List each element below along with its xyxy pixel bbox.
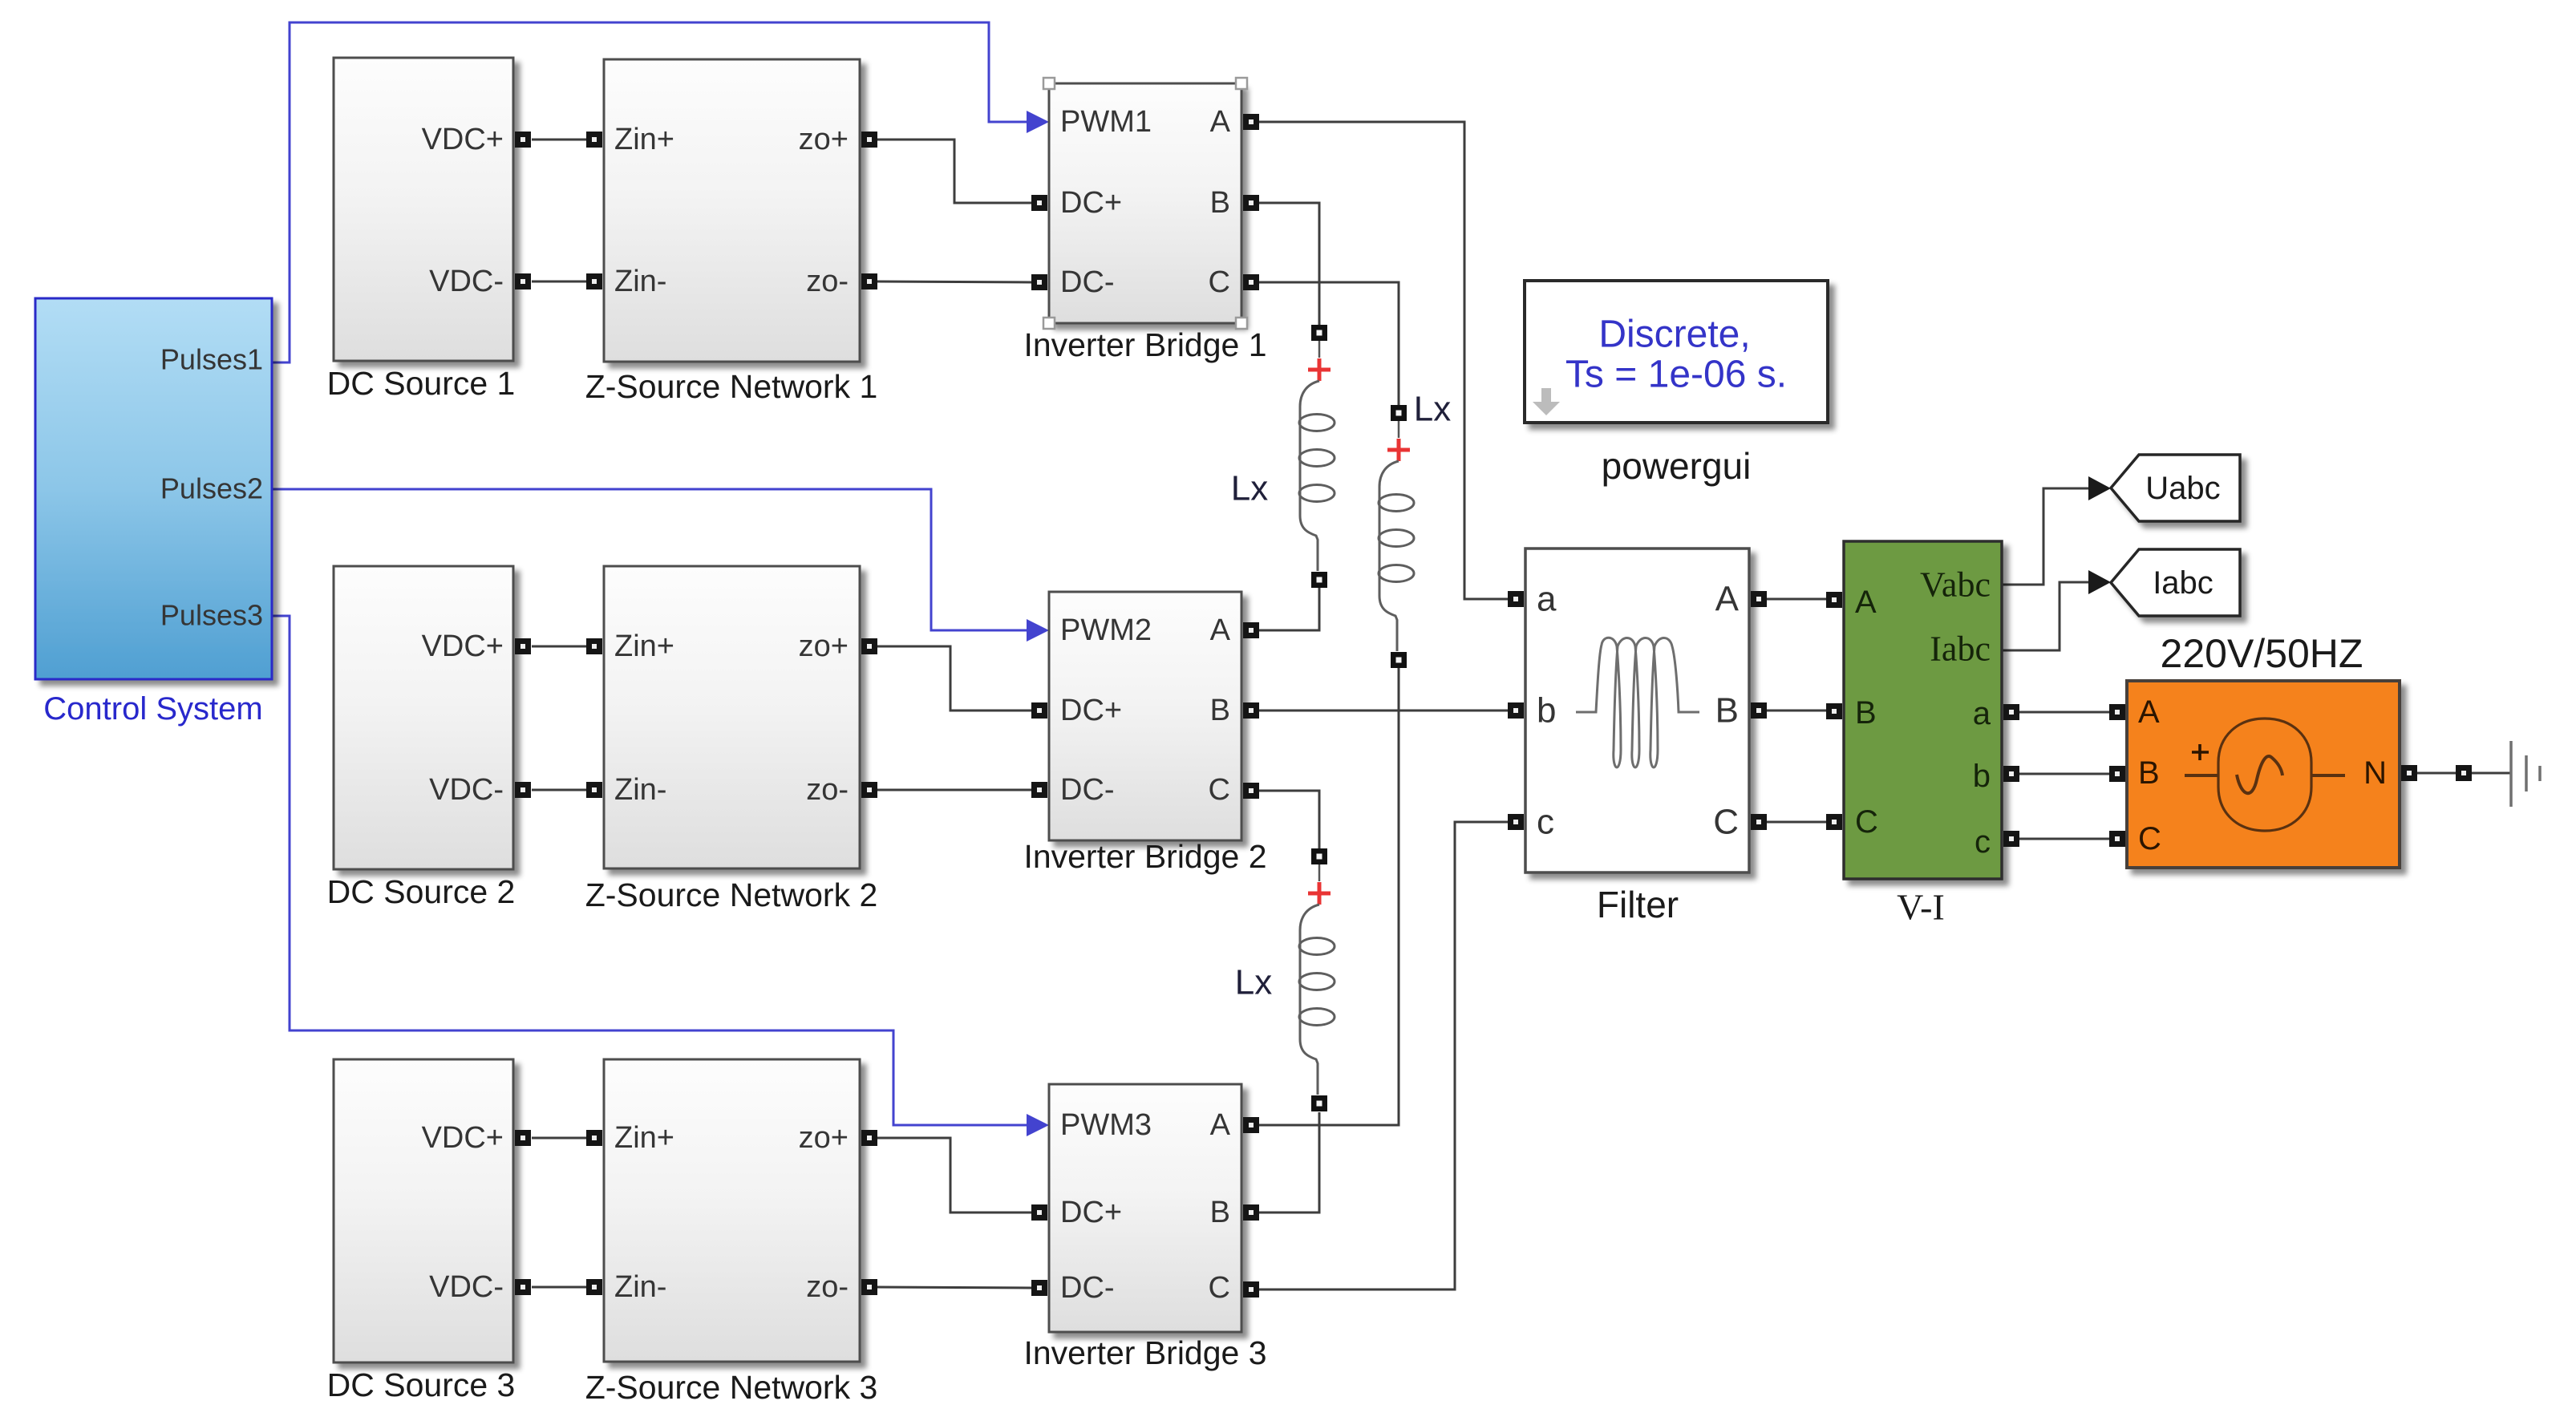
svg-text:Z-Source Network 3: Z-Source Network 3 — [585, 1369, 878, 1406]
svg-text:Control System: Control System — [43, 691, 262, 727]
svg-text:A: A — [1210, 105, 1231, 139]
svg-text:b: b — [1537, 691, 1556, 731]
svg-text:A: A — [1855, 585, 1877, 620]
svg-text:B: B — [1210, 186, 1230, 220]
svg-text:Lx: Lx — [1231, 469, 1268, 508]
svg-text:Zin-: Zin- — [614, 1270, 666, 1304]
svg-text:DC+: DC+ — [1060, 1196, 1122, 1229]
svg-text:DC-: DC- — [1060, 265, 1115, 299]
svg-text:B: B — [1715, 691, 1739, 731]
svg-text:Filter: Filter — [1597, 884, 1679, 925]
svg-text:B: B — [1210, 1196, 1230, 1229]
svg-text:a: a — [1537, 580, 1557, 619]
svg-text:DC+: DC+ — [1060, 186, 1122, 220]
svg-text:PWM3: PWM3 — [1060, 1108, 1152, 1142]
svg-text:c: c — [1975, 824, 1991, 860]
svg-text:V-I: V-I — [1897, 887, 1945, 928]
svg-text:Zin-: Zin- — [614, 265, 666, 298]
svg-text:VDC-: VDC- — [429, 265, 504, 298]
svg-text:VDC+: VDC+ — [422, 123, 504, 156]
svg-text:Inverter Bridge 1: Inverter Bridge 1 — [1023, 326, 1266, 363]
svg-text:Inverter Bridge 3: Inverter Bridge 3 — [1023, 1334, 1266, 1371]
svg-text:C: C — [1713, 803, 1739, 842]
svg-text:A: A — [1210, 1108, 1231, 1142]
svg-text:N: N — [2363, 755, 2387, 791]
svg-text:DC-: DC- — [1060, 773, 1115, 807]
svg-text:zo+: zo+ — [799, 1121, 849, 1155]
svg-text:c: c — [1537, 803, 1554, 842]
svg-text:Zin-: Zin- — [614, 773, 666, 807]
svg-text:A: A — [1210, 613, 1231, 647]
svg-text:Z-Source Network 2: Z-Source Network 2 — [585, 876, 878, 913]
svg-text:Ts = 1e-06 s.: Ts = 1e-06 s. — [1565, 354, 1787, 396]
svg-text:VDC-: VDC- — [429, 773, 504, 807]
svg-text:C: C — [1209, 1271, 1230, 1305]
svg-text:DC Source 3: DC Source 3 — [327, 1366, 516, 1403]
svg-text:zo-: zo- — [806, 265, 849, 298]
svg-text:Iabc: Iabc — [2153, 565, 2213, 601]
svg-text:B: B — [1855, 695, 1877, 731]
svg-text:a: a — [1973, 696, 1991, 731]
svg-text:powergui: powergui — [1602, 445, 1752, 487]
svg-text:DC-: DC- — [1060, 1271, 1115, 1305]
svg-text:B: B — [2138, 755, 2160, 791]
svg-text:C: C — [1855, 804, 1878, 840]
svg-text:zo+: zo+ — [799, 630, 849, 663]
svg-text:Z-Source Network 1: Z-Source Network 1 — [585, 368, 878, 405]
svg-text:Zin+: Zin+ — [614, 630, 674, 663]
svg-text:PWM1: PWM1 — [1060, 105, 1152, 139]
svg-text:zo-: zo- — [806, 773, 849, 807]
svg-text:220V/50HZ: 220V/50HZ — [2161, 631, 2363, 676]
svg-text:Discrete,: Discrete, — [1598, 314, 1750, 356]
svg-text:C: C — [1209, 773, 1230, 807]
svg-text:PWM2: PWM2 — [1060, 613, 1152, 647]
svg-text:Pulses2: Pulses2 — [160, 472, 263, 505]
svg-text:zo+: zo+ — [799, 123, 849, 156]
svg-text:Lx: Lx — [1235, 963, 1272, 1002]
svg-text:DC+: DC+ — [1060, 694, 1122, 727]
svg-text:B: B — [1210, 694, 1230, 727]
svg-text:A: A — [1715, 580, 1740, 619]
svg-text:Uabc: Uabc — [2145, 471, 2220, 506]
svg-text:Pulses1: Pulses1 — [160, 343, 263, 376]
svg-text:C: C — [2138, 821, 2161, 856]
svg-text:A: A — [2138, 694, 2160, 730]
svg-text:Zin+: Zin+ — [614, 1121, 674, 1155]
svg-text:Vabc: Vabc — [1920, 565, 1991, 605]
svg-text:Inverter Bridge 2: Inverter Bridge 2 — [1023, 838, 1266, 875]
svg-text:b: b — [1973, 759, 1991, 794]
svg-text:Zin+: Zin+ — [614, 123, 674, 156]
svg-text:zo-: zo- — [806, 1270, 849, 1304]
svg-text:DC Source 1: DC Source 1 — [327, 365, 516, 402]
svg-text:Lx: Lx — [1414, 390, 1451, 429]
svg-text:C: C — [1209, 265, 1230, 299]
svg-text:VDC-: VDC- — [429, 1270, 504, 1304]
svg-text:Pulses3: Pulses3 — [160, 599, 263, 632]
svg-text:DC Source 2: DC Source 2 — [327, 873, 516, 910]
svg-text:Iabc: Iabc — [1930, 630, 1991, 669]
svg-text:VDC+: VDC+ — [422, 1121, 504, 1155]
svg-text:VDC+: VDC+ — [422, 630, 504, 663]
